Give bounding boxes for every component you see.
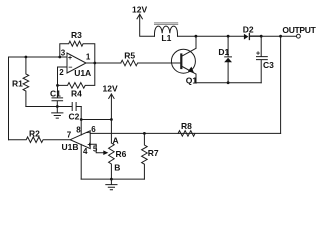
svg-text:R8: R8 xyxy=(181,121,192,131)
node junction R1 top xyxy=(25,56,28,59)
wire: output branch down and left to R8 xyxy=(280,36,282,133)
ground below C1 xyxy=(52,107,63,119)
wire: L1 to collector junction and D1 xyxy=(178,35,244,37)
svg-text:OUTPUT: OUTPUT xyxy=(282,25,316,35)
svg-text:C2: C2 xyxy=(69,112,80,122)
wire: U1B pin8 stub xyxy=(80,120,82,136)
svg-text:C3: C3 xyxy=(263,60,274,70)
resistor R5 xyxy=(121,60,138,66)
svg-text:12V: 12V xyxy=(132,5,147,15)
wire: U1B pin6 node A net to output branch xyxy=(90,132,280,134)
svg-text:1: 1 xyxy=(86,52,91,61)
svg-text:D2: D2 xyxy=(243,25,254,35)
wire: U1A output to R5 xyxy=(86,62,121,64)
svg-text:+: + xyxy=(256,51,260,58)
wire: left rail vertical xyxy=(8,57,10,140)
svg-text:4: 4 xyxy=(83,147,88,156)
svg-text:L1: L1 xyxy=(161,33,171,43)
resistor R2 xyxy=(9,137,71,143)
R6 wiper arrowhead xyxy=(103,150,108,155)
svg-text:A: A xyxy=(113,136,119,146)
resistor R7 xyxy=(142,133,148,179)
svg-text:+: + xyxy=(68,55,72,62)
capacitor C3 xyxy=(257,36,268,82)
svg-text:R6: R6 xyxy=(116,149,127,159)
resistor R6 potentiometer xyxy=(109,143,115,179)
svg-text:U1A: U1A xyxy=(74,68,91,78)
node junction 12V drop xyxy=(110,118,113,121)
resistor R4 xyxy=(58,63,95,88)
svg-text:R3: R3 xyxy=(71,30,82,40)
wire: U1A pin2 input net xyxy=(58,67,68,85)
node junction D1 bottom xyxy=(227,81,230,84)
svg-text:R5: R5 xyxy=(124,50,135,60)
svg-text:R7: R7 xyxy=(148,148,159,158)
resistor R3 feedback xyxy=(60,41,95,63)
wire: emitter rail xyxy=(196,82,261,84)
ground symbol bottom xyxy=(106,179,117,190)
wire: tee to 12V junction xyxy=(81,119,111,121)
svg-text:3: 3 xyxy=(61,49,66,58)
output terminal circle xyxy=(297,34,301,38)
wire: R1 bottom to C1 junction xyxy=(26,106,57,108)
svg-text:R2: R2 xyxy=(29,128,40,138)
wire: ground rail bottom xyxy=(81,178,144,180)
node junction C1 bottom xyxy=(56,105,59,108)
transistor Q1 xyxy=(171,49,195,73)
wire: R5 to Q1 base xyxy=(138,62,180,64)
node junction U1A output xyxy=(93,62,96,65)
diode D1 xyxy=(225,36,232,82)
inductor L1 xyxy=(155,26,178,36)
op-amp U1A xyxy=(67,53,86,73)
node junction Q1 collector xyxy=(195,35,198,38)
svg-text:Q1: Q1 xyxy=(186,76,198,86)
wire: C2 to U1B pin8 and 12V rail xyxy=(80,107,82,120)
wire: D2 to output terminal xyxy=(261,35,296,37)
wire: U1A pin3 input net xyxy=(9,56,68,58)
diode D2 xyxy=(244,34,249,40)
svg-text:U1B: U1B xyxy=(62,142,79,152)
svg-text:2: 2 xyxy=(59,68,64,77)
svg-text:7: 7 xyxy=(67,130,72,139)
svg-text:−: − xyxy=(68,65,72,72)
svg-text:5: 5 xyxy=(93,145,98,154)
svg-text:12V: 12V xyxy=(103,83,118,93)
capacitor C1 xyxy=(52,85,63,106)
svg-text:R4: R4 xyxy=(71,88,82,98)
svg-text:C1: C1 xyxy=(50,88,61,98)
wire: U1B pin5 to R6 wiper xyxy=(90,144,104,153)
svg-text:+: + xyxy=(87,142,91,149)
capacitor C2 xyxy=(57,103,81,111)
node junction R3 left xyxy=(58,56,61,59)
node junction pin2/R4/C1 xyxy=(56,84,59,87)
inductor L1 core bars xyxy=(154,22,178,23)
svg-text:R1: R1 xyxy=(12,79,23,89)
resistor R8 xyxy=(178,131,195,137)
power 12V supply arrow (top) xyxy=(140,14,155,36)
node junction D1 top xyxy=(227,35,230,38)
svg-text:6: 6 xyxy=(91,125,96,134)
node junction C3 top xyxy=(260,35,263,38)
resistor R1 xyxy=(23,57,29,107)
svg-text:8: 8 xyxy=(76,126,81,135)
svg-text:−: − xyxy=(86,130,90,137)
svg-text:B: B xyxy=(114,163,120,173)
wire: U1B pin4 stub to ground rail xyxy=(80,144,82,179)
node junction pin8 tee xyxy=(80,118,83,121)
power 12V supply arrow (lower) xyxy=(110,94,112,120)
op-amp U1B xyxy=(70,131,90,149)
node junction ground rail xyxy=(110,178,113,181)
svg-text:D1: D1 xyxy=(218,47,229,57)
wire: 12V junction down to R6 top (node A) xyxy=(110,120,112,144)
node junction R7 top xyxy=(143,132,146,135)
node junction output branch xyxy=(279,35,282,38)
